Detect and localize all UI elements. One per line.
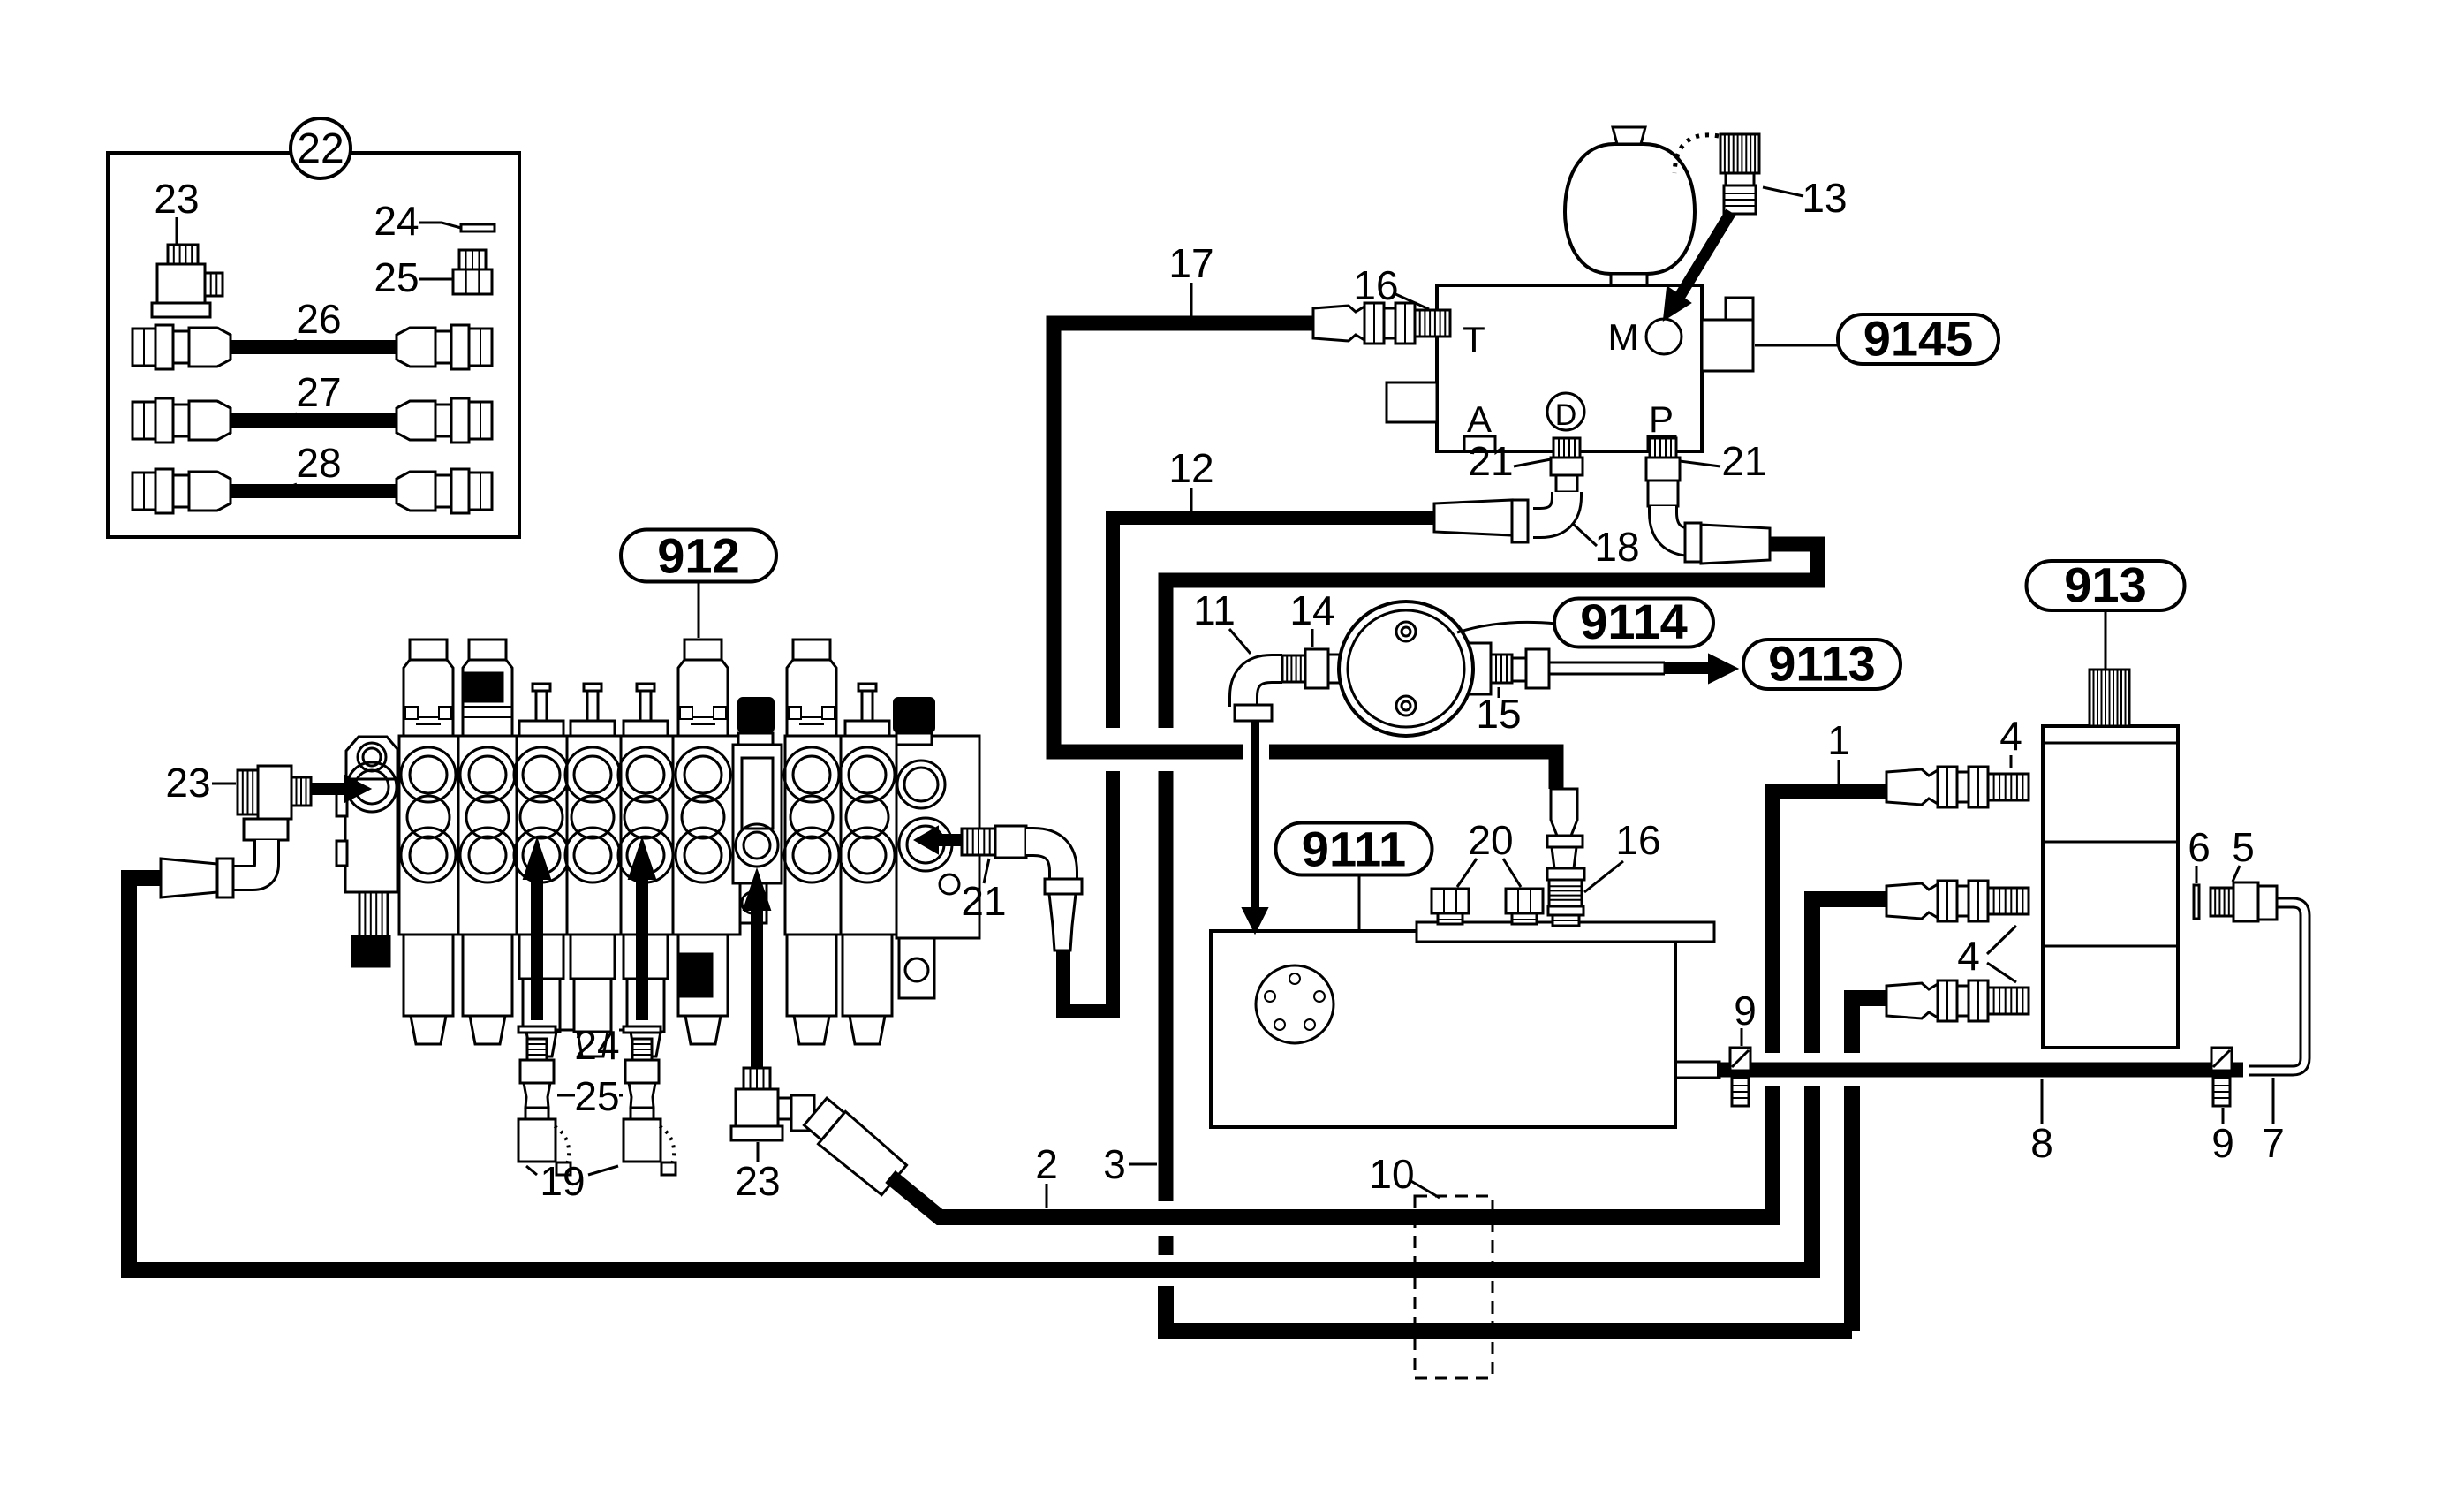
45 fitting nut (791, 1095, 814, 1131)
valve section s3 body (517, 736, 567, 935)
leader 24 (kit) (419, 223, 461, 228)
svg-text:23: 23 (735, 1158, 780, 1204)
left loop riser to pump middle port (1812, 899, 1889, 1053)
svg-text:9: 9 (1734, 988, 1757, 1033)
balloon label 22 (291, 118, 351, 178)
control valve 912 label (621, 530, 776, 582)
elbow 23 under section s7 (744, 1068, 770, 1089)
hydraulic tank 9111 (1211, 931, 1675, 1127)
arrowhead 13 (1664, 287, 1690, 320)
leaders 24 (556, 1029, 624, 1032)
svg-text:24: 24 (374, 198, 419, 244)
leader 10 (1410, 1180, 1440, 1198)
leader 14 (1311, 629, 1314, 647)
fitting 21 under P (1650, 438, 1676, 458)
valve section s6 bottom cap (678, 935, 728, 1016)
svg-text:12: 12 (1168, 445, 1213, 491)
washer 24 (kit) (461, 224, 495, 231)
label 9145 (1838, 314, 1999, 364)
svg-text:3: 3 (1103, 1141, 1126, 1187)
leader 17 (1190, 283, 1193, 316)
leader 23 (kit) (176, 217, 178, 244)
arrow from elbow 11 into tank (1251, 721, 1259, 908)
pump shaft knurl (2090, 670, 2129, 726)
hose 3 to pump lower port (1852, 998, 1889, 1053)
elbow 18 hose-end (1434, 500, 1512, 535)
valve section s4 bottom plunger (571, 935, 615, 979)
svg-text:8: 8 (2030, 1120, 2053, 1166)
fitting 21 under D (1553, 438, 1580, 458)
hose from cap 13 to M port (1676, 212, 1731, 302)
svg-text:D: D (1555, 398, 1577, 432)
leaders 25 (557, 1094, 623, 1097)
balloon nipple (1613, 127, 1645, 144)
valve section s9 body (841, 736, 896, 935)
relief valve section s7 (737, 697, 775, 733)
label 9114 (1554, 599, 1713, 647)
valve section s5 bottom plunger (624, 935, 668, 979)
valve section s3 top pin (533, 684, 550, 691)
elbow nut (1045, 879, 1082, 894)
svg-text:A: A (1467, 398, 1492, 440)
elbow fitting 23 at valve inlet (238, 770, 258, 814)
valve section s6 body (673, 736, 740, 935)
pipe 7 (2249, 903, 2305, 1071)
inlet bottom black cap (352, 936, 389, 966)
svg-text:13: 13 (1802, 175, 1847, 221)
valve end block (896, 736, 979, 938)
svg-text:19: 19 (540, 1158, 585, 1204)
plug 25 (kit) (459, 250, 486, 269)
leader 7 (2272, 1078, 2275, 1124)
hose 3 crossing stub (1159, 1236, 1174, 1255)
elbow 11 (1243, 669, 1282, 707)
end block ear (899, 938, 934, 998)
svg-text:2: 2 (1035, 1141, 1058, 1187)
hose 17 (T line) (1054, 323, 1316, 752)
valve section s1 top cap (410, 640, 447, 660)
leader 8 (2041, 1079, 2044, 1124)
hose-end down (1049, 894, 1076, 950)
svg-text:24: 24 (574, 1022, 619, 1068)
svg-text:16: 16 (1353, 262, 1398, 308)
pump 913 (2043, 726, 2178, 1048)
leader 27 (267, 413, 297, 425)
svg-text:M: M (1608, 316, 1639, 358)
hose 26 (228, 340, 399, 354)
svg-text:25: 25 (374, 254, 419, 300)
leader 9 right (2222, 1108, 2225, 1124)
arrow to 9113 (1665, 662, 1709, 674)
valve body 9145 (1437, 285, 1702, 451)
elbow 11 nut (1235, 705, 1272, 721)
leader 18 (1572, 523, 1597, 546)
leader 21 (984, 859, 989, 883)
s2 black solenoid cap (465, 673, 503, 701)
washer 6 (2194, 885, 2199, 919)
valve section s5 body (621, 736, 673, 935)
valve section s9 top pin (858, 684, 876, 691)
svg-text:7: 7 (2262, 1120, 2285, 1166)
valve section s9 bottom cap (843, 935, 892, 1016)
left loop ring (217, 859, 233, 897)
leaders 4 (1987, 926, 2016, 982)
valve section s8 top cap (793, 640, 830, 660)
fitting 5 (2211, 888, 2233, 916)
leader 3 (1129, 1163, 1157, 1166)
hose-end fitting 4 (bottom) (1886, 983, 1938, 1018)
valve section s8 body (785, 736, 841, 935)
leader 16 (1394, 293, 1429, 309)
M port (1646, 319, 1682, 354)
fitting 14 (1282, 655, 1305, 682)
tube to 9113 (1549, 662, 1665, 674)
leaders 19 (526, 1166, 618, 1175)
hose-end fitting 4 (middle) (1886, 883, 1938, 919)
svg-text:9: 9 (2211, 1120, 2234, 1166)
svg-text:16: 16 (1615, 817, 1660, 863)
valve section s2 bottom cap (463, 935, 512, 1016)
leader 15 (1498, 687, 1500, 698)
svg-text:18: 18 (1594, 524, 1639, 570)
hose 28 (228, 484, 399, 498)
tank label 9111 (1276, 823, 1432, 875)
svg-text:21: 21 (1721, 438, 1766, 484)
hose 3 riser (1844, 1086, 1860, 1331)
elbow below inlet fitting (244, 819, 288, 840)
end block side port (899, 818, 952, 871)
valve section s2 body (458, 736, 517, 935)
svg-text:4: 4 (1999, 713, 2022, 759)
side port 9145 (1702, 320, 1753, 371)
svg-text:T: T (1463, 319, 1485, 360)
arrow up from elbow 23 (751, 910, 763, 1068)
valve section s6 top cap (684, 640, 722, 660)
left stub on 9145 (1387, 382, 1437, 422)
hose 3 middle segment (1159, 771, 1174, 1201)
valve section s3 bottom plunger (519, 935, 563, 979)
end block upper port (897, 761, 945, 808)
valve section s5 top pin (637, 684, 654, 691)
hose 3 (P line) (1166, 544, 1818, 728)
svg-text:P: P (1649, 398, 1674, 440)
end block cap collar (896, 733, 932, 745)
svg-text:21: 21 (1468, 438, 1513, 484)
valve section s4 top pin (584, 684, 601, 691)
balloon neck (1611, 274, 1647, 285)
svg-text:4: 4 (1957, 933, 1980, 979)
hose 3 bottom run (1166, 1286, 1852, 1331)
svg-text:9111: 9111 (1302, 821, 1406, 876)
svg-text:9114: 9114 (1580, 594, 1688, 649)
leader 11 (1229, 629, 1251, 654)
hose T-line to tank fitting 16 (1269, 752, 1556, 789)
leader 16 tank (1584, 861, 1623, 892)
s6 black bottom cap (680, 954, 712, 996)
leader 23 (757, 1142, 760, 1162)
left loop hose-end (161, 859, 217, 897)
leader 4 top (2010, 755, 2013, 768)
svg-text:27: 27 (296, 369, 341, 415)
hose 1 to pump top port (1772, 791, 1889, 1053)
valve section s4 body (567, 736, 621, 935)
leader 23 (212, 783, 236, 785)
leader 26 (267, 340, 297, 352)
leader 912 (698, 582, 700, 638)
leader 28 (267, 484, 297, 496)
arrow into inlet port (311, 783, 344, 795)
svg-text:9113: 9113 (1768, 635, 1876, 691)
svg-text:10: 10 (1369, 1151, 1414, 1197)
bulkhead fitting 9 (right) (2211, 1048, 2232, 1071)
svg-text:26: 26 (296, 296, 341, 342)
svg-text:913: 913 (2064, 556, 2146, 612)
svg-text:17: 17 (1168, 240, 1213, 286)
hose-end fitting 4 (top) (1886, 769, 1938, 805)
hose 2 (890, 1086, 1772, 1217)
leader 1 (1838, 760, 1840, 784)
fitting 15 (1491, 655, 1512, 683)
svg-text:23: 23 (165, 760, 210, 806)
svg-text:22: 22 (297, 125, 344, 172)
leader 9114 (1457, 622, 1556, 632)
inlet mounting ear (346, 737, 397, 779)
charge cap 13 (1720, 134, 1759, 173)
plug fittings 20 on tank (1432, 889, 1469, 913)
leader 6 (2196, 866, 2198, 883)
leader 21 P (1680, 461, 1720, 466)
fitting 21 at valve right end (962, 829, 995, 855)
elbow fitting 23 (kit) (168, 245, 198, 264)
coupler 19 under s5 (624, 1026, 661, 1033)
bulkhead fitting 9 (left) (1730, 1048, 1750, 1071)
leaders 20 (1457, 859, 1521, 887)
svg-text:23: 23 (154, 176, 199, 222)
P elbow hose-end (1701, 525, 1770, 564)
kit box 22 (108, 153, 519, 537)
arrow up from coupler s5 (636, 879, 648, 1020)
accumulator balloon (1565, 144, 1695, 274)
elbow 18 (1533, 492, 1567, 523)
svg-text:28: 28 (296, 440, 341, 486)
svg-text:25: 25 (574, 1073, 619, 1119)
leader 21 D (1514, 459, 1551, 466)
P elbow ring (1685, 523, 1701, 562)
pump label 913 (2027, 561, 2185, 610)
arrow into end port (938, 834, 963, 846)
cap 13 chain (1674, 135, 1719, 173)
svg-text:1: 1 (1827, 717, 1850, 763)
valve section s2 top cap (469, 640, 506, 660)
hose 12 lower U-turn (1063, 771, 1113, 1011)
A port (1464, 436, 1495, 451)
leader 9145 (1755, 344, 1838, 347)
inlet body (345, 779, 397, 892)
end block small hole (940, 874, 959, 894)
fitting 16 on tank (1551, 789, 1577, 836)
dashed box 10 (1415, 1196, 1493, 1378)
svg-text:912: 912 (657, 527, 739, 583)
hose 12 (D line) (1113, 518, 1434, 728)
leader 5 (2233, 866, 2240, 882)
svg-text:20: 20 (1468, 817, 1513, 863)
valve section s1 body (399, 736, 458, 935)
label 9113 (1743, 640, 1901, 689)
hose 27 (228, 413, 399, 428)
valve section s8 bottom cap (787, 935, 836, 1016)
leader 12 (1190, 488, 1193, 511)
svg-text:6: 6 (2188, 824, 2211, 870)
leader 9111 (1358, 875, 1361, 930)
svg-text:11: 11 (1193, 587, 1236, 633)
leader 13 (1763, 187, 1803, 196)
svg-text:9145: 9145 (1863, 310, 1974, 366)
inlet port (347, 762, 397, 812)
valve section s1 bottom cap (404, 935, 453, 1016)
flow divider 9114 (1344, 643, 1378, 694)
leader 913 (2105, 610, 2107, 669)
arrow up from coupler s3 (531, 879, 543, 1020)
leader 25 (kit) (419, 278, 452, 281)
tank top plate (1417, 922, 1714, 942)
coupler 19 under s3 (518, 1026, 556, 1033)
elbow 18 ring (1512, 500, 1528, 542)
T port fitting 16 (1313, 306, 1364, 341)
elbow under P (1663, 506, 1698, 542)
leader 9 left (1741, 1028, 1743, 1046)
svg-text:14: 14 (1289, 587, 1334, 633)
svg-text:21: 21 (961, 878, 1006, 924)
tank flange (1256, 965, 1334, 1043)
tank outlet stub (1675, 1062, 1720, 1078)
elbow at valve right end (1026, 842, 1063, 879)
left loop hose to pump middle port (129, 878, 1812, 1270)
D port (1547, 393, 1584, 430)
svg-text:5: 5 (2232, 824, 2255, 870)
P port (1648, 436, 1675, 451)
leader 2 (1046, 1184, 1048, 1208)
